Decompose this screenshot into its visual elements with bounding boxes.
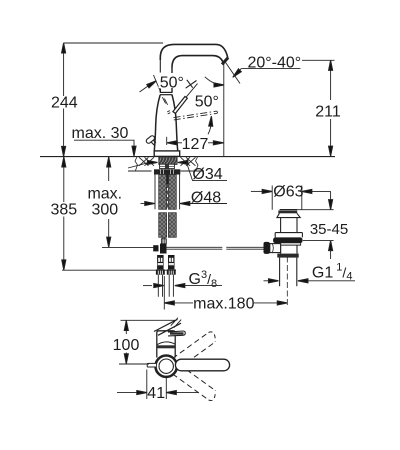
dimension 211 top extension — [302, 59, 335, 61]
body cone right edge — [172, 95, 178, 151]
lever handle closed position — [173, 97, 187, 114]
244 bottom arrowhead — [62, 146, 66, 156]
rear view spout tube line 1 — [154, 319, 178, 331]
O48 left arrowhead — [145, 202, 155, 206]
phantom lever open position bottom edge — [174, 113, 217, 120]
linkage joint nut — [153, 245, 158, 251]
max300 bottom extension line — [102, 246, 155, 248]
deck top line right — [180, 156, 335, 158]
dimension O34 left leader — [128, 163, 149, 168]
shank slot right — [169, 164, 175, 168]
svg-text:Ø34: Ø34 — [192, 166, 222, 183]
G38 right arrowhead — [175, 284, 185, 288]
rear body side right — [174, 338, 176, 358]
body shine mark 2 — [164, 99, 167, 105]
plug cap dark band — [278, 211, 297, 214]
dashed lever lower — [173, 365, 216, 401]
phantom lever tip cap — [216, 111, 219, 113]
100 bottom extension — [119, 363, 149, 365]
nut bar highlights — [161, 170, 174, 175]
mounting nut bar — [154, 169, 180, 174]
pop-up rod center line — [167, 184, 169, 208]
G38 right line underline — [185, 285, 222, 287]
rear hub inner ring — [159, 359, 173, 373]
pivot cross mark line 2 — [187, 80, 193, 88]
svg-text:100: 100 — [113, 337, 140, 354]
spout gooseneck inner outline — [172, 56, 223, 68]
drain neck right wall — [296, 218, 298, 233]
pop-up rod between hoses — [166, 175, 168, 185]
rod port neck — [270, 244, 281, 253]
svg-text:300: 300 — [91, 202, 118, 219]
G114 right arrowhead — [298, 279, 308, 283]
svg-text:35-45: 35-45 — [310, 221, 348, 238]
body cone left edge — [154, 95, 160, 151]
shank slot left — [160, 164, 166, 168]
O48 right arrowhead — [180, 202, 190, 206]
127 right arrowhead — [213, 141, 223, 145]
spout break slash 1 — [171, 318, 178, 326]
svg-text:G3/8: G3/8 — [189, 269, 218, 290]
body joint ring upper line — [160, 91, 173, 93]
100 bottom arrowhead — [124, 354, 128, 364]
slot inner lines — [160, 165, 175, 167]
deck hatch right — [181, 157, 196, 166]
drain center line — [286, 257, 288, 307]
41 right arrowhead — [166, 391, 176, 395]
hose thread tube left — [158, 275, 162, 297]
hose envelope right wall — [179, 175, 181, 210]
max180 right arrowhead — [277, 301, 287, 305]
svg-text:211: 211 — [315, 104, 341, 121]
max30 arrowhead — [132, 146, 136, 156]
G3/8 fitting left body — [157, 255, 164, 269]
41 left arrowhead — [137, 391, 147, 395]
dimension max300 line — [108, 157, 110, 247]
G38 left line — [143, 285, 152, 287]
flexible hose left upper — [159, 175, 167, 210]
G114 right line underline — [308, 280, 355, 282]
dimension 244 extension line top — [64, 42, 163, 44]
drain flange (O63) — [273, 237, 302, 243]
body shine mark 3 — [167, 111, 170, 112]
max300 top arrowhead — [107, 157, 111, 167]
50deg leader arrowhead — [147, 79, 158, 88]
50deg tick slash on tube — [154, 75, 162, 93]
pop-up rod knob (knurled) — [264, 242, 270, 254]
pop-up knob at base — [145, 135, 156, 145]
label 50deg 1 — [159, 73, 186, 92]
O63 extension right — [301, 186, 303, 210]
35-45 line bottom — [330, 251, 332, 260]
G3/8 fitting left nut — [156, 269, 165, 274]
label 100 — [112, 336, 140, 355]
rear lever stub hatch — [170, 332, 184, 334]
20-40 leader arrowhead — [231, 69, 241, 79]
385 top arrowhead — [62, 157, 66, 167]
drain body below flange — [281, 245, 297, 254]
faucet riser right edge — [171, 68, 173, 93]
linkage joint block — [160, 244, 167, 254]
svg-text:127: 127 — [182, 136, 209, 153]
dimension 127 center extension tick — [166, 137, 168, 145]
shank center strip — [166, 164, 169, 169]
pivot cross mark line 1 — [186, 81, 197, 89]
dimension 211 line — [330, 60, 332, 156]
threaded shank — [159, 157, 177, 165]
flexible hose right upper — [168, 175, 176, 210]
rear body side left — [156, 338, 158, 358]
50deg leader arrow line — [140, 84, 151, 92]
rear body dome arc — [157, 342, 175, 345]
O34 left arrowhead — [147, 160, 157, 164]
50 degree arc arrowhead — [209, 116, 214, 126]
flexible hose right lower — [168, 213, 176, 238]
lever axis extension line — [186, 84, 197, 97]
drain step — [275, 233, 302, 238]
O63 right arrowhead — [302, 189, 312, 193]
body shine mark 1 — [162, 97, 165, 103]
G114 left arrowhead — [269, 279, 279, 283]
svg-text:50°: 50° — [195, 94, 219, 111]
41 line right — [176, 392, 198, 394]
35-45 top arrowhead — [329, 200, 333, 210]
dimension 35-45 extension top — [298, 209, 334, 211]
deck break mark left — [135, 157, 138, 171]
deck top line left — [40, 156, 154, 158]
dimension 41 extension left — [146, 370, 148, 400]
horizontal pop-up rod right segment — [226, 247, 263, 249]
spout angle slanted line — [226, 63, 240, 84]
svg-text:41: 41 — [147, 385, 165, 402]
244 top arrowhead — [62, 43, 66, 53]
drain neck left wall — [280, 218, 282, 233]
rear hub ring — [156, 356, 177, 377]
max180 line right — [254, 302, 277, 304]
rear view spout tube line 2 — [158, 323, 181, 335]
20-40 leader diagonal — [235, 69, 242, 76]
base flange — [154, 151, 180, 157]
body joint ring lower line — [160, 94, 172, 96]
O63 left arrowhead — [262, 189, 272, 193]
max300 bottom arrowhead — [107, 237, 111, 247]
100 top arrowhead — [124, 321, 128, 331]
lever bar solid — [175, 359, 229, 371]
G114 left line — [264, 280, 269, 282]
port neck ellipse line — [272, 244, 273, 253]
rear body cap — [157, 331, 175, 338]
tailpipe left wall — [279, 258, 281, 287]
svg-text:50°: 50° — [160, 75, 184, 92]
tailpipe right wall — [296, 258, 298, 287]
spout gooseneck outer outline — [160, 44, 228, 60]
spout rotation arc arrowhead — [214, 83, 224, 87]
deck break mark right — [196, 157, 199, 171]
dimension O48 left line — [141, 203, 146, 205]
50 degree arc arrow tail — [208, 120, 211, 135]
385 bottom arrowhead — [62, 260, 66, 270]
127 left arrowhead — [167, 141, 177, 145]
127 line left — [177, 142, 182, 144]
dimension max30 leader line — [74, 140, 134, 146]
211 bottom arrowhead — [329, 146, 333, 156]
svg-text:Ø63: Ø63 — [273, 183, 303, 200]
drain pop-up waste: plug cap top — [280, 209, 298, 211]
spout angle V vertical line — [223, 63, 225, 157]
spout outlet tip face — [222, 58, 228, 65]
pop-up rod vertical — [163, 238, 165, 245]
211 top arrowhead — [329, 60, 333, 70]
rear body dark band — [157, 345, 175, 348]
rod clevis — [161, 239, 166, 244]
svg-text:G1 1/4: G1 1/4 — [312, 261, 353, 282]
O63 right line — [312, 190, 331, 192]
hose envelope left wall — [154, 175, 156, 210]
deck hatch left — [139, 157, 154, 166]
rear lever stub — [168, 331, 185, 336]
flexible hose left lower — [159, 213, 167, 238]
G38 left arrowhead — [154, 284, 164, 288]
41 line left — [117, 392, 137, 394]
dimension 244 line — [63, 43, 65, 156]
dimension O63 extension left — [271, 186, 273, 210]
body shine mark 4 — [168, 113, 171, 114]
G3/8 fitting right body — [168, 255, 175, 269]
svg-text:max.180: max.180 — [193, 296, 254, 313]
deck bottom line — [128, 170, 204, 172]
385 bottom extension line — [62, 269, 176, 271]
svg-text:max. 30: max. 30 — [72, 125, 129, 142]
O34 right arrowhead — [178, 160, 188, 164]
35-45 extension bottom — [303, 240, 334, 242]
41 extension right — [165, 377, 167, 400]
faucet riser left edge — [159, 57, 161, 73]
dimension 385 line — [63, 157, 65, 270]
horizontal pop-up rod left segment — [167, 247, 223, 249]
max180 extension left — [163, 276, 165, 310]
drain locknut band — [277, 254, 298, 258]
spout rotation arc — [205, 77, 218, 85]
dashed lever upper — [173, 332, 216, 368]
20-40 leader underline — [241, 68, 300, 70]
35-45 line top — [330, 191, 332, 199]
rear pop-up stub — [147, 363, 156, 367]
O48 right line underline — [190, 203, 227, 205]
G3/8 fitting right nut — [167, 269, 176, 274]
hose thread tube right — [169, 275, 173, 297]
dimension 100 line — [125, 321, 127, 364]
rear view top extension line — [121, 319, 176, 321]
label max180 — [193, 296, 254, 313]
127 line right — [208, 142, 214, 144]
svg-text:385: 385 — [50, 202, 77, 219]
O63 left line — [251, 190, 262, 192]
O34 right leader — [187, 162, 228, 180]
svg-text:20°-40°: 20°-40° — [247, 54, 301, 71]
under flange ring — [277, 243, 301, 245]
35-45 bottom arrowhead — [329, 241, 333, 251]
svg-text:244: 244 — [51, 94, 78, 111]
svg-text:Ø48: Ø48 — [191, 190, 221, 207]
max180 left arrowhead — [164, 301, 174, 305]
max180 line left — [174, 302, 193, 304]
spout break slash 2 — [174, 320, 181, 328]
phantom lever open position top edge — [174, 111, 217, 118]
plug rim flare — [277, 213, 300, 217]
svg-text:max.: max. — [87, 186, 122, 203]
